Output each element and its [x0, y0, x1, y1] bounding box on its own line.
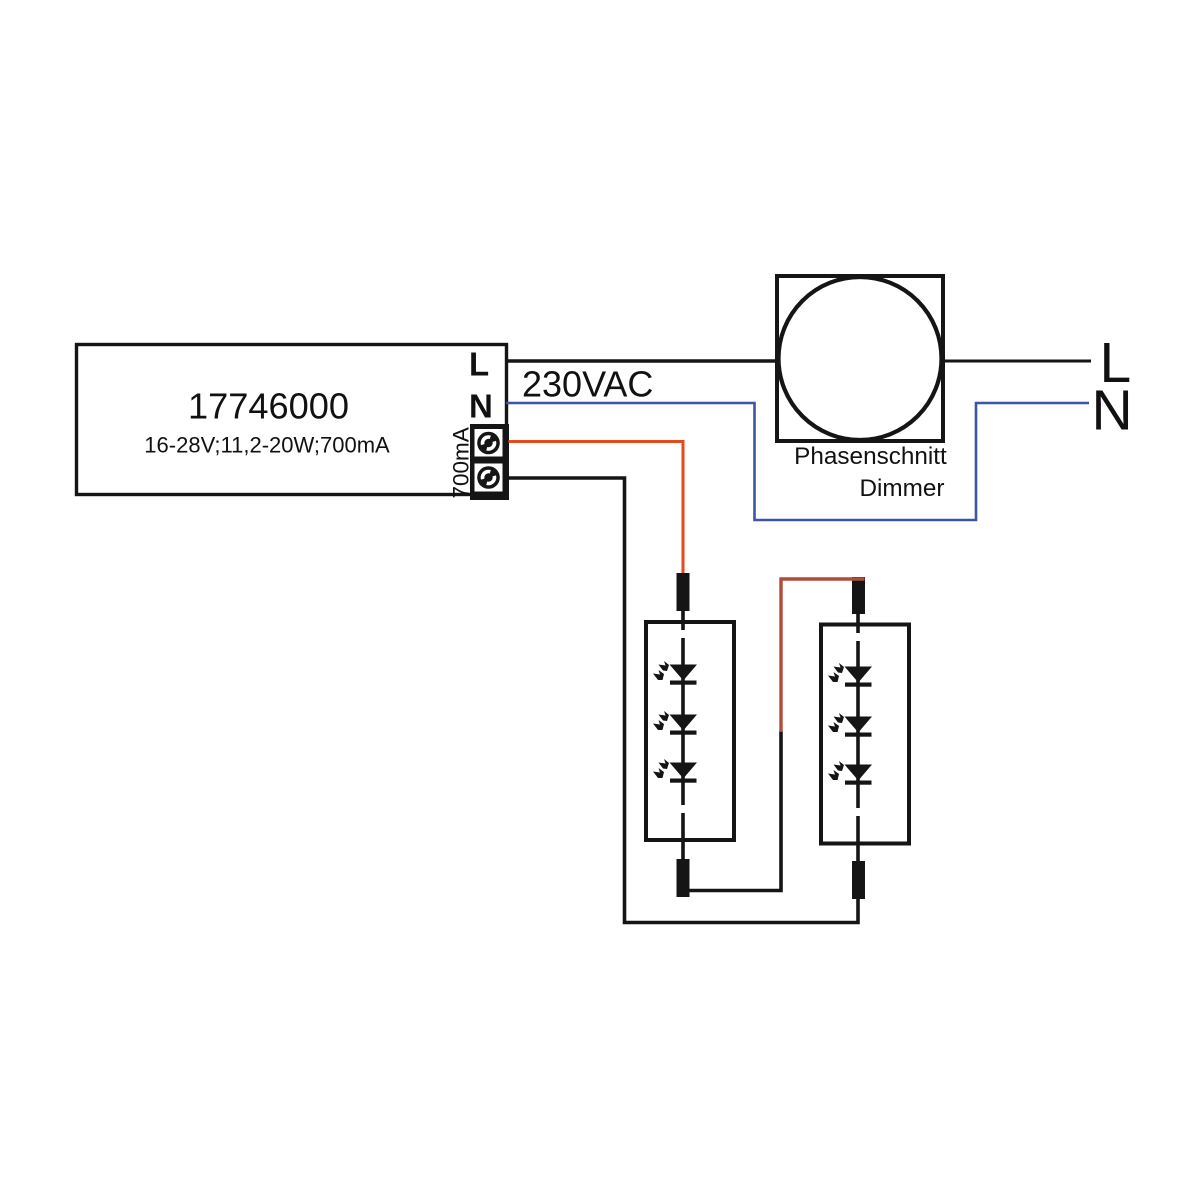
LED strip 1 outline	[646, 622, 734, 840]
LED strip 1 connector top	[677, 573, 690, 611]
svg-text:Phasenschnitt: Phasenschnitt	[794, 443, 947, 470]
wire L driver to dimmer (black)	[506, 359, 778, 362]
LED D2 strip2	[828, 713, 872, 737]
svg-text:N: N	[469, 388, 493, 425]
LED D2 strip1	[653, 711, 697, 735]
svg-text:Dimmer: Dimmer	[859, 475, 944, 502]
LED D1 strip1	[653, 661, 697, 685]
wire dimmer to mains L (black)	[943, 360, 1091, 363]
LED D3 strip2	[828, 761, 872, 785]
svg-text:700mA: 700mA	[448, 427, 473, 498]
terminal block 700mA output	[470, 424, 509, 500]
wire strip1 bottom to strip2 top, lower black part	[685, 731, 781, 891]
svg-text:N: N	[1092, 379, 1133, 443]
LED driver U1 box	[77, 345, 507, 495]
svg-text:230VAC: 230VAC	[522, 364, 653, 405]
svg-text:16-28V;11,2-20W;700mA: 16-28V;11,2-20W;700mA	[144, 433, 390, 458]
LED D1 strip2	[828, 663, 872, 687]
LED strip 1 connector bottom	[677, 859, 690, 897]
svg-text:L: L	[469, 346, 489, 383]
LED strip 1 internal wire (dashed)	[681, 608, 685, 862]
wire driver - output return (black)	[506, 478, 858, 923]
dimmer S1 box	[777, 276, 943, 441]
wire strip1 to strip2 link, upper red part	[781, 579, 865, 732]
dimmer knob circle	[779, 277, 942, 440]
wire N driver to mains N (blue)	[506, 403, 1089, 520]
LED strip 2 outline	[821, 625, 909, 844]
LED strip 2 connector top	[852, 577, 865, 614]
LED D3 strip1	[653, 759, 697, 783]
svg-text:17746000: 17746000	[188, 386, 349, 427]
LED strip 2 internal wire (dashed)	[856, 611, 860, 864]
wire driver + output to strip 1 (red)	[509, 442, 684, 576]
LED strip 2 connector bottom	[852, 861, 865, 899]
